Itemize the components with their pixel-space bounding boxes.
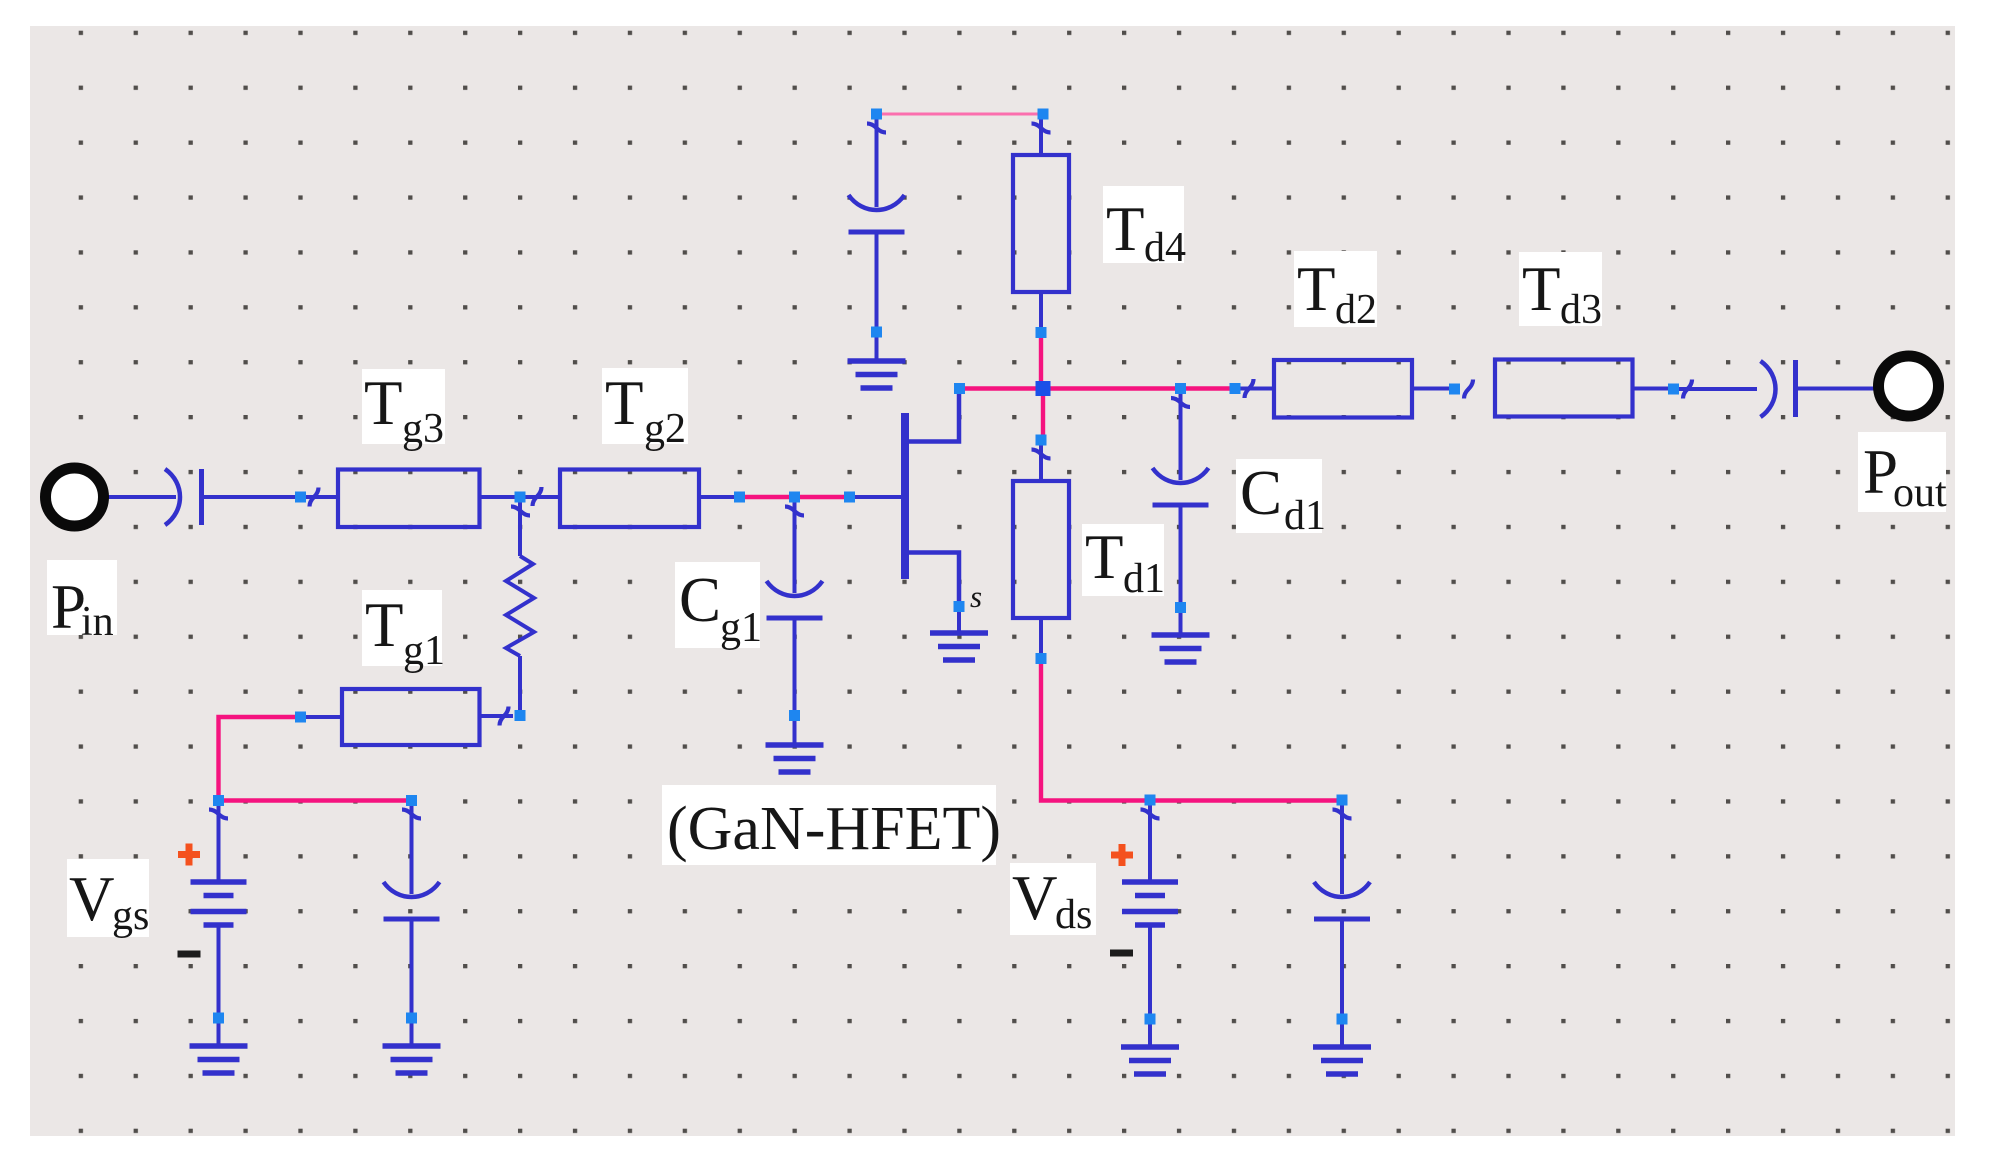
svg-text:T: T (1106, 194, 1144, 264)
slash Tg1 right (500, 707, 509, 726)
svg-text:g1: g1 (720, 605, 762, 651)
wire Td3 left (1633, 387, 1670, 391)
slash Vds top (1141, 810, 1160, 819)
transmission line Td3 (1495, 360, 1633, 417)
pink wire Tg2 to gate nodes (742, 495, 848, 499)
svg-text:d1: d1 (1123, 556, 1165, 602)
wire top cap C3 (875, 119, 879, 207)
transmission line Tg1 (342, 689, 480, 745)
svg-text:V: V (1012, 863, 1058, 933)
svg-text:d3: d3 (1560, 287, 1602, 333)
node Cd1 ground (1175, 602, 1186, 613)
wire cap C2 to ground (410, 1022, 414, 1046)
wire resistor bottom (518, 656, 522, 710)
node before Td2 (1230, 383, 1241, 394)
node C4 top (1337, 795, 1348, 806)
wire Cg1 to ground (793, 720, 797, 745)
wire Td1 top (1039, 445, 1043, 481)
label C_d1 (1236, 459, 1322, 533)
slash after Td3 (1683, 380, 1692, 399)
node input 1 (295, 492, 306, 503)
slash before Td3 (1464, 380, 1473, 399)
node C2 top (406, 795, 417, 806)
node Td4 bottom (1036, 327, 1047, 338)
node after Tg2 (734, 492, 745, 503)
svg-text:g1: g1 (403, 628, 445, 674)
svg-text:d1: d1 (1284, 493, 1326, 539)
slash before Tg2 (533, 487, 542, 506)
node gate (844, 492, 855, 503)
capacitor Cg1 (767, 581, 823, 618)
node Td1 bottom (1036, 653, 1047, 664)
node C2 ground (406, 1013, 417, 1024)
svg-text:g3: g3 (402, 406, 444, 452)
capacitor DC block output (1761, 361, 1776, 417)
pink wire Vgs row (222, 798, 409, 802)
pink wire junction to Td1 (1041, 389, 1045, 438)
label T_g2 (602, 368, 688, 444)
port P_out (1879, 356, 1939, 416)
pink wire Tg1 to Vgs (219, 717, 298, 797)
pink wire drain bus right (1043, 386, 1234, 390)
wire P_in to DC block (103, 495, 176, 499)
slash input node (310, 488, 319, 507)
wire Vgs battery bottom (217, 925, 221, 1015)
node Td2-Td3 (1449, 384, 1460, 395)
label V_gs (67, 859, 149, 937)
wire Td3 node to DC block (1678, 387, 1757, 391)
wire Vds battery to ground (1148, 1023, 1152, 1047)
wire cap C4 top (1340, 805, 1344, 894)
label T_d3 (1519, 252, 1602, 326)
label T_g3 (362, 369, 445, 444)
svg-text:(GaN-HFET): (GaN-HFET) (667, 795, 1001, 863)
wire DC block to node (202, 495, 297, 499)
junction center (1036, 381, 1051, 396)
plus Vds (1111, 844, 1133, 866)
svg-text:C: C (679, 565, 721, 635)
label V_ds (1010, 863, 1096, 935)
wire cap C2 bottom (410, 920, 414, 1016)
wire Cg1 top (793, 502, 797, 593)
svg-text:V: V (69, 864, 115, 934)
label T_d4 (1103, 186, 1184, 263)
svg-text:in: in (81, 599, 114, 645)
wire Vgs battery top (217, 805, 221, 881)
plus Vgs (178, 844, 200, 866)
wire Tg3 to Tg2 (480, 495, 561, 499)
wire source to ground (957, 611, 961, 633)
wire Cd1 top (1179, 393, 1183, 480)
battery Vds (1122, 882, 1178, 925)
node Vds top (1145, 795, 1156, 806)
pink wire top light (879, 113, 1040, 116)
wire cap C2 top (410, 805, 414, 894)
minus Vds (1110, 950, 1133, 957)
capacitor DC block input arc plate (165, 469, 180, 525)
transmission line Td2 (1274, 360, 1412, 418)
slash Td1 top (1032, 450, 1051, 459)
label T_d2 (1294, 251, 1377, 327)
resistor R1 zigzag (506, 556, 534, 656)
slash C4 top (1333, 810, 1352, 819)
wire cap C3 to ground (875, 337, 879, 361)
ground under Cg1 (766, 745, 824, 772)
capacitor C3 (849, 195, 905, 232)
svg-text:d2: d2 (1335, 287, 1377, 333)
pink wire Td1 to Vds row (1041, 661, 1147, 801)
svg-text:s: s (970, 579, 982, 614)
ground under C3 (848, 361, 906, 388)
wire DC block to P_out (1796, 387, 1880, 391)
svg-text:T: T (364, 368, 402, 438)
wire cap C4 to ground (1340, 1023, 1344, 1047)
slash resistor top (511, 507, 530, 516)
node resistor bottom (515, 710, 526, 721)
ground under Cd1 (1152, 635, 1210, 662)
svg-text:T: T (605, 368, 643, 438)
wire node to Tg3 (306, 495, 338, 499)
wire Cg1 bottom (793, 618, 797, 712)
capacitor Cd1 (1153, 468, 1209, 505)
label P_in (47, 560, 117, 635)
node after Td3 (1668, 384, 1679, 395)
slash C3 top (867, 124, 886, 133)
wire cap C4 bottom (1340, 920, 1344, 1017)
svg-text:out: out (1893, 470, 1947, 516)
ground under C2 (383, 1046, 441, 1073)
node drain (954, 383, 965, 394)
slash Td4 top (1032, 124, 1051, 133)
svg-text:T: T (1522, 254, 1560, 324)
svg-text:g2: g2 (644, 406, 686, 452)
node Cg1 top (789, 492, 800, 503)
minus Vgs (178, 951, 201, 958)
pink wire drain bus left (961, 386, 1042, 390)
label P_out (1858, 432, 1946, 512)
svg-text:d4: d4 (1144, 225, 1186, 271)
wire cap C3 bottom (875, 233, 879, 329)
node Td1 top (1036, 435, 1047, 446)
ground under C4 (1313, 1047, 1371, 1074)
node C4 ground (1337, 1014, 1348, 1025)
wire Cd1 to ground (1179, 612, 1183, 635)
transmission line Tg3 (338, 470, 480, 528)
pink wire Td4 to junction (1039, 335, 1043, 388)
node C3 ground (871, 327, 882, 338)
wire Td4 bottom (1039, 292, 1043, 330)
ground under source (930, 633, 988, 660)
wire Vds battery top (1148, 805, 1152, 881)
node Cd1 top (1175, 383, 1186, 394)
capacitor C2 (384, 882, 440, 919)
transmission line Td4 (1013, 155, 1069, 292)
slash Cd1 top (1171, 398, 1190, 407)
node Tg3-Tg2 junction (515, 492, 526, 503)
svg-text:T: T (365, 590, 403, 660)
slash C2 top (402, 810, 421, 819)
capacitor C4 (1314, 882, 1370, 919)
wire Tg2 to node (699, 495, 736, 499)
svg-text:gs: gs (112, 893, 149, 939)
label GaN-HFET (662, 785, 996, 865)
node source s (954, 601, 965, 612)
label T_d1 (1082, 524, 1164, 596)
transmission line Td1 (1013, 481, 1069, 618)
wire gate node to transistor (854, 495, 901, 499)
slash Vgs top (209, 810, 228, 819)
transmission line Tg2 (560, 470, 699, 528)
ground under Vgs (190, 1046, 248, 1073)
wire Cd1 bottom (1179, 506, 1183, 605)
wire Vgs battery to ground (217, 1022, 221, 1046)
wire Tg1 left (305, 715, 342, 719)
node Td4 top (1038, 109, 1049, 120)
wire Td4 top (1039, 119, 1043, 155)
transistor Q1 channel bar (901, 413, 909, 579)
node C3 top (871, 109, 882, 120)
svg-text:T: T (1085, 522, 1123, 592)
node Vds ground (1145, 1014, 1156, 1025)
node Cg1 ground (789, 710, 800, 721)
wire Vds battery bottom (1148, 925, 1152, 1016)
svg-text:T: T (1297, 254, 1335, 324)
wire Td1 bottom (1039, 618, 1043, 655)
ground under Vds (1121, 1047, 1179, 1074)
battery Vgs (191, 882, 247, 925)
node Vgs ground (213, 1013, 224, 1024)
wire node to Td2 (1240, 387, 1274, 391)
svg-text:C: C (1240, 458, 1282, 528)
wire resistor top (518, 501, 522, 556)
transistor Q1 source (905, 553, 959, 603)
port P_in (46, 468, 104, 526)
pink wire Vds row (1153, 798, 1340, 802)
svg-text:ds: ds (1055, 892, 1092, 938)
label T_g1 (362, 590, 442, 666)
slash Cg1 (785, 507, 804, 516)
transistor Q1 drain (905, 391, 959, 442)
node Vgs top (213, 795, 224, 806)
label C_g1 (675, 562, 760, 648)
slash before Td2 (1245, 379, 1254, 398)
wire node to Tg1 (480, 714, 514, 718)
wire Td2 to node (1412, 387, 1450, 391)
node Tg1 left (295, 712, 306, 723)
